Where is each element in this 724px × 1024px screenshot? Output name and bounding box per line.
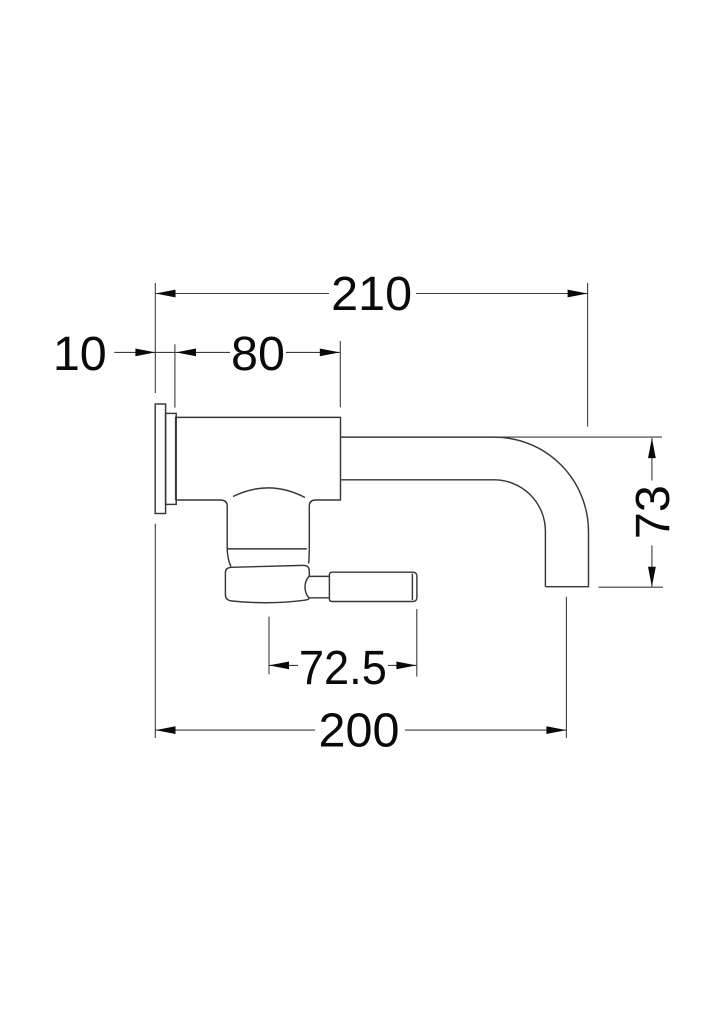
- arrow 200 left: [156, 726, 176, 734]
- dimension line 10-80: [114, 351, 339, 353]
- arrow 210 left: [156, 290, 176, 298]
- extension line handle end 72.5: [416, 609, 418, 677]
- wall flange inner plate: [166, 413, 177, 504]
- svg-text:73: 73: [626, 485, 680, 539]
- svg-text:80: 80: [231, 327, 285, 381]
- arrow 72.5 left: [269, 662, 289, 670]
- extension line spout bottom 73: [599, 586, 664, 588]
- tap main body outline: [176, 417, 341, 549]
- arrow 80 left: [176, 349, 196, 357]
- cartridge collar separator line: [227, 548, 307, 550]
- arrow 210 right: [568, 290, 588, 298]
- dimension text 73 rotated: [626, 481, 680, 546]
- body dome arc: [233, 488, 305, 498]
- dimension line 72.5: [269, 664, 416, 666]
- svg-text:210: 210: [331, 267, 412, 321]
- valve body: [225, 565, 309, 602]
- dimension text 72.5: [298, 641, 388, 695]
- spout inner profile: [341, 480, 546, 587]
- dimension line 73: [651, 438, 653, 587]
- arrow 72.5 right: [396, 662, 416, 670]
- arrow 10 right-pointing: [135, 349, 155, 357]
- handle connector stem: [305, 576, 329, 597]
- extension line body left: [174, 344, 176, 407]
- extension line body right: [339, 341, 341, 407]
- arrow 80 right: [320, 349, 340, 357]
- lever handle bar: [329, 572, 417, 601]
- dimension line 200: [156, 729, 567, 731]
- spout outer profile: [341, 437, 589, 587]
- wall flange outer plate: [155, 404, 165, 514]
- dimension text 210: [329, 267, 416, 321]
- handle end cap line: [411, 574, 413, 600]
- arrow 73 top: [648, 438, 656, 458]
- cartridge collar flare sides: [227, 549, 309, 567]
- extension line valve centre 72.5: [268, 617, 270, 675]
- extension line left wall bottom: [154, 524, 156, 738]
- dimension text 80: [230, 327, 286, 381]
- dimension line 210: [156, 293, 588, 295]
- extension line spout top 73: [494, 436, 662, 438]
- svg-text:200: 200: [319, 704, 400, 758]
- arrow 73 bottom: [648, 567, 656, 587]
- dimension text 200: [315, 704, 405, 758]
- extension line spout end 210: [587, 283, 589, 427]
- arrow 200 right: [546, 726, 566, 734]
- svg-text:72.5: 72.5: [299, 641, 387, 695]
- extension line spout outlet 200: [565, 597, 567, 738]
- extension line left wall top: [154, 283, 156, 393]
- svg-text:10: 10: [53, 327, 107, 381]
- dimension text 10: [52, 327, 108, 381]
